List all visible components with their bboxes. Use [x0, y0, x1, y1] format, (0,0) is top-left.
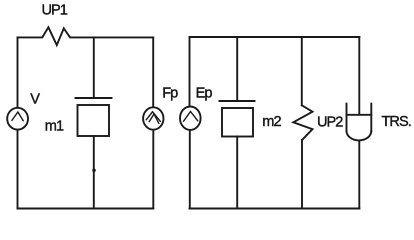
svg-text:UP2: UP2 [317, 114, 343, 130]
svg-text:m1: m1 [45, 118, 64, 134]
svg-text:Ep: Ep [196, 85, 213, 101]
svg-text:TRS.: TRS. [382, 114, 411, 130]
svg-text:Fp: Fp [162, 85, 178, 101]
svg-text:V: V [30, 91, 40, 107]
svg-text:m2: m2 [262, 114, 281, 130]
svg-text:UP1: UP1 [42, 3, 68, 19]
